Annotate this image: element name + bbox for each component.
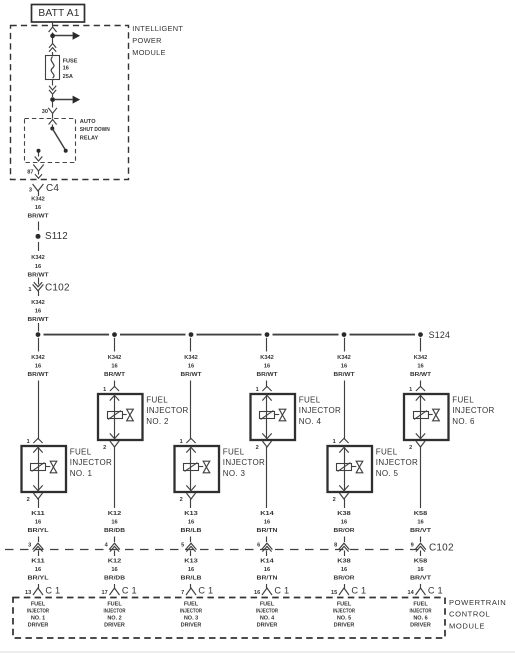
svg-text:87: 87 bbox=[27, 170, 33, 176]
svg-text:BR/WT: BR/WT bbox=[334, 372, 356, 378]
svg-text:K342: K342 bbox=[31, 197, 45, 203]
svg-text:K342: K342 bbox=[337, 355, 351, 361]
svg-text:K58: K58 bbox=[414, 511, 428, 517]
svg-text:DRIVER: DRIVER bbox=[410, 622, 431, 628]
svg-text:DRIVER: DRIVER bbox=[334, 622, 355, 628]
svg-text:FUEL: FUEL bbox=[31, 602, 46, 608]
svg-text:C 1: C 1 bbox=[351, 585, 366, 595]
svg-text:K13: K13 bbox=[184, 559, 198, 565]
svg-text:2: 2 bbox=[409, 445, 412, 451]
svg-text:16: 16 bbox=[341, 567, 347, 573]
svg-text:K11: K11 bbox=[31, 511, 45, 517]
svg-text:POWERTRAIN: POWERTRAIN bbox=[449, 598, 506, 607]
svg-text:INJECTOR: INJECTOR bbox=[410, 609, 432, 615]
svg-text:K14: K14 bbox=[260, 559, 275, 565]
svg-text:K342: K342 bbox=[184, 355, 198, 361]
svg-text:INJECTOR: INJECTOR bbox=[180, 609, 202, 615]
svg-text:BR/LB: BR/LB bbox=[181, 576, 202, 582]
svg-text:NO. 6: NO. 6 bbox=[413, 615, 427, 621]
svg-text:16: 16 bbox=[264, 520, 270, 526]
svg-text:16: 16 bbox=[111, 364, 117, 370]
svg-text:BR/WT: BR/WT bbox=[104, 372, 126, 378]
svg-text:16: 16 bbox=[35, 364, 41, 370]
svg-text:INJECTOR: INJECTOR bbox=[333, 609, 355, 615]
svg-text:INJECTOR: INJECTOR bbox=[376, 458, 418, 467]
svg-text:2: 2 bbox=[180, 497, 183, 503]
svg-text:K14: K14 bbox=[260, 511, 275, 517]
svg-text:BR/TN: BR/TN bbox=[257, 576, 278, 582]
svg-text:DRIVER: DRIVER bbox=[257, 622, 278, 628]
svg-text:2: 2 bbox=[103, 445, 106, 451]
svg-text:K12: K12 bbox=[108, 511, 122, 517]
svg-text:16: 16 bbox=[417, 364, 423, 370]
svg-text:K38: K38 bbox=[337, 511, 351, 517]
svg-text:FUEL: FUEL bbox=[376, 448, 398, 457]
svg-text:K12: K12 bbox=[108, 559, 122, 565]
svg-text:C 1: C 1 bbox=[428, 585, 443, 595]
svg-text:FUEL: FUEL bbox=[184, 602, 199, 608]
svg-text:BR/DB: BR/DB bbox=[104, 528, 125, 534]
svg-text:RELAY: RELAY bbox=[80, 135, 99, 141]
svg-text:INJECTOR: INJECTOR bbox=[452, 406, 494, 415]
svg-text:BR/TN: BR/TN bbox=[257, 528, 278, 534]
svg-text:16: 16 bbox=[341, 520, 347, 526]
svg-text:K11: K11 bbox=[31, 559, 45, 565]
svg-text:FUEL: FUEL bbox=[107, 602, 122, 608]
svg-text:K342: K342 bbox=[31, 300, 45, 306]
svg-text:C102: C102 bbox=[45, 283, 70, 294]
svg-text:16: 16 bbox=[63, 66, 69, 72]
svg-text:14: 14 bbox=[407, 590, 414, 596]
svg-text:2: 2 bbox=[256, 445, 259, 451]
svg-text:AUTO: AUTO bbox=[80, 119, 96, 125]
svg-text:16: 16 bbox=[341, 364, 347, 370]
svg-text:DRIVER: DRIVER bbox=[104, 622, 125, 628]
svg-text:INTELLIGENT: INTELLIGENT bbox=[132, 24, 183, 33]
svg-text:K58: K58 bbox=[414, 559, 428, 565]
svg-text:BR/OR: BR/OR bbox=[334, 576, 355, 582]
svg-text:INJECTOR: INJECTOR bbox=[146, 406, 188, 415]
svg-text:15: 15 bbox=[331, 590, 337, 596]
svg-text:BR/WT: BR/WT bbox=[28, 372, 50, 378]
svg-text:16: 16 bbox=[111, 520, 117, 526]
svg-text:NO. 4: NO. 4 bbox=[260, 615, 275, 621]
svg-text:POWER: POWER bbox=[132, 36, 161, 45]
svg-text:5: 5 bbox=[181, 543, 184, 549]
svg-text:DRIVER: DRIVER bbox=[28, 622, 49, 628]
svg-text:1: 1 bbox=[256, 387, 259, 393]
svg-text:K342: K342 bbox=[108, 355, 122, 361]
svg-text:1: 1 bbox=[333, 439, 336, 445]
svg-text:FUEL: FUEL bbox=[452, 396, 474, 405]
svg-text:BR/DB: BR/DB bbox=[104, 576, 125, 582]
svg-text:16: 16 bbox=[35, 205, 41, 211]
svg-text:16: 16 bbox=[111, 567, 117, 573]
svg-text:S124: S124 bbox=[429, 330, 451, 340]
svg-text:BR/WT: BR/WT bbox=[257, 372, 279, 378]
svg-text:BR/WT: BR/WT bbox=[410, 372, 432, 378]
svg-text:16: 16 bbox=[254, 590, 260, 596]
svg-text:30: 30 bbox=[42, 109, 48, 115]
svg-text:25A: 25A bbox=[63, 74, 73, 80]
svg-text:K342: K342 bbox=[31, 355, 45, 361]
svg-text:16: 16 bbox=[35, 264, 41, 270]
svg-text:16: 16 bbox=[188, 364, 194, 370]
svg-text:SHUT DOWN: SHUT DOWN bbox=[80, 127, 110, 133]
svg-text:BR/WT: BR/WT bbox=[28, 214, 50, 220]
svg-text:NO. 5: NO. 5 bbox=[376, 469, 399, 478]
svg-text:8: 8 bbox=[334, 543, 337, 549]
svg-text:C4: C4 bbox=[46, 183, 59, 194]
svg-text:13: 13 bbox=[25, 590, 31, 596]
svg-text:FUSE: FUSE bbox=[63, 58, 78, 64]
svg-text:6: 6 bbox=[257, 543, 260, 549]
svg-text:16: 16 bbox=[35, 309, 41, 315]
svg-text:NO. 3: NO. 3 bbox=[184, 615, 198, 621]
svg-text:16: 16 bbox=[188, 520, 194, 526]
svg-text:NO. 1: NO. 1 bbox=[31, 615, 45, 621]
svg-text:9: 9 bbox=[411, 543, 414, 549]
svg-text:NO. 5: NO. 5 bbox=[337, 615, 351, 621]
svg-text:FUEL: FUEL bbox=[337, 602, 352, 608]
svg-text:INJECTOR: INJECTOR bbox=[223, 458, 265, 467]
svg-text:INJECTOR: INJECTOR bbox=[104, 609, 126, 615]
svg-text:BR/YL: BR/YL bbox=[28, 576, 50, 582]
svg-text:K342: K342 bbox=[414, 355, 428, 361]
svg-text:C 1: C 1 bbox=[198, 585, 213, 595]
svg-text:2: 2 bbox=[27, 497, 30, 503]
svg-text:BR/OR: BR/OR bbox=[334, 528, 355, 534]
svg-text:C102: C102 bbox=[429, 543, 454, 554]
svg-text:C 1: C 1 bbox=[274, 585, 289, 595]
svg-text:3: 3 bbox=[28, 543, 31, 549]
svg-text:1: 1 bbox=[409, 387, 412, 393]
svg-text:NO. 6: NO. 6 bbox=[452, 417, 475, 426]
svg-text:16: 16 bbox=[264, 567, 270, 573]
svg-text:INJECTOR: INJECTOR bbox=[256, 609, 278, 615]
svg-text:INJECTOR: INJECTOR bbox=[70, 458, 112, 467]
svg-text:FUEL: FUEL bbox=[413, 602, 428, 608]
svg-text:NO. 2: NO. 2 bbox=[146, 417, 169, 426]
svg-text:4: 4 bbox=[105, 543, 109, 549]
svg-text:NO. 3: NO. 3 bbox=[223, 469, 246, 478]
svg-text:INJECTOR: INJECTOR bbox=[27, 609, 49, 615]
svg-text:1: 1 bbox=[27, 439, 30, 445]
svg-text:BR/WT: BR/WT bbox=[181, 372, 203, 378]
svg-text:BR/VT: BR/VT bbox=[410, 576, 432, 582]
svg-text:16: 16 bbox=[35, 520, 41, 526]
svg-text:CONTROL: CONTROL bbox=[449, 610, 490, 619]
svg-text:16: 16 bbox=[417, 520, 423, 526]
svg-text:16: 16 bbox=[35, 567, 41, 573]
svg-text:BR/VT: BR/VT bbox=[410, 528, 432, 534]
svg-text:BR/YL: BR/YL bbox=[28, 528, 50, 534]
svg-text:C 1: C 1 bbox=[122, 585, 137, 595]
svg-text:BR/WT: BR/WT bbox=[28, 317, 50, 323]
svg-text:K38: K38 bbox=[337, 559, 351, 565]
svg-text:FUEL: FUEL bbox=[223, 448, 245, 457]
svg-text:1: 1 bbox=[180, 439, 183, 445]
svg-text:MODULE: MODULE bbox=[132, 48, 165, 57]
svg-text:FUEL: FUEL bbox=[70, 448, 92, 457]
svg-text:FUEL: FUEL bbox=[260, 602, 275, 608]
svg-text:1: 1 bbox=[28, 287, 31, 293]
svg-text:DRIVER: DRIVER bbox=[181, 622, 202, 628]
svg-text:K342: K342 bbox=[260, 355, 274, 361]
svg-text:16: 16 bbox=[264, 364, 270, 370]
svg-text:3: 3 bbox=[29, 188, 32, 194]
svg-text:K342: K342 bbox=[31, 255, 45, 261]
svg-text:17: 17 bbox=[101, 590, 107, 596]
svg-text:7: 7 bbox=[181, 590, 184, 596]
svg-text:BATT A1: BATT A1 bbox=[38, 8, 79, 19]
svg-text:1: 1 bbox=[103, 387, 106, 393]
svg-text:16: 16 bbox=[417, 567, 423, 573]
svg-text:FUEL: FUEL bbox=[146, 396, 168, 405]
svg-text:BR/LB: BR/LB bbox=[181, 528, 202, 534]
svg-text:NO. 2: NO. 2 bbox=[107, 615, 121, 621]
svg-text:2: 2 bbox=[333, 497, 336, 503]
svg-text:NO. 1: NO. 1 bbox=[70, 469, 93, 478]
svg-text:C 1: C 1 bbox=[45, 585, 60, 595]
svg-text:MODULE: MODULE bbox=[449, 622, 485, 631]
svg-text:S112: S112 bbox=[45, 231, 68, 242]
svg-text:16: 16 bbox=[188, 567, 194, 573]
svg-text:FUEL: FUEL bbox=[299, 396, 321, 405]
svg-text:K13: K13 bbox=[184, 511, 198, 517]
svg-text:INJECTOR: INJECTOR bbox=[299, 406, 341, 415]
svg-text:NO. 4: NO. 4 bbox=[299, 417, 322, 426]
